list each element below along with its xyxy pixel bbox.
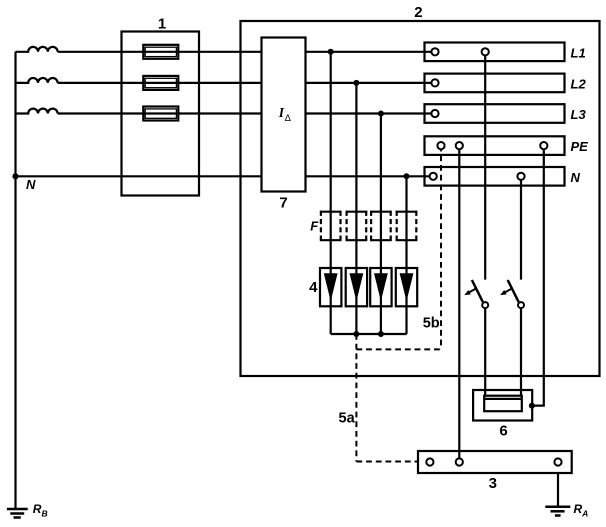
svg-text:N: N (571, 170, 581, 185)
svg-text:5a: 5a (339, 410, 356, 426)
svg-text:4: 4 (309, 279, 318, 296)
svg-text:L2: L2 (571, 77, 587, 92)
svg-text:6: 6 (499, 422, 507, 439)
svg-text:1: 1 (158, 16, 166, 33)
svg-text:3: 3 (489, 475, 497, 492)
svg-text:7: 7 (279, 194, 287, 211)
svg-text:2: 2 (414, 4, 422, 21)
svg-text:5b: 5b (423, 316, 440, 332)
svg-text:PE: PE (571, 139, 589, 154)
svg-text:L1: L1 (571, 45, 586, 60)
svg-text:N: N (26, 177, 36, 192)
svg-text:L3: L3 (571, 107, 587, 122)
svg-text:F: F (310, 218, 319, 233)
